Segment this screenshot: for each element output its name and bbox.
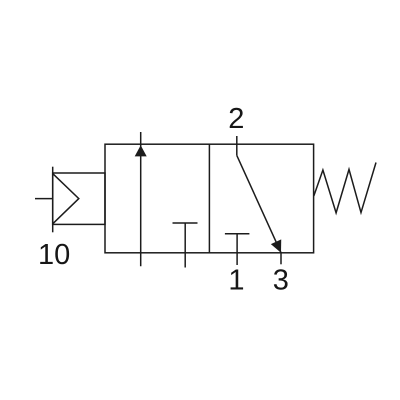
svg-text:10: 10 (38, 239, 70, 271)
svg-text:1: 1 (228, 265, 244, 297)
svg-text:2: 2 (228, 103, 244, 135)
svg-text:3: 3 (273, 265, 289, 297)
